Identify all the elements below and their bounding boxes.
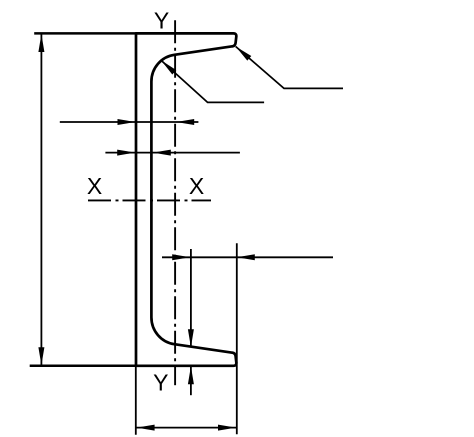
svg-text:Y: Y (154, 8, 169, 34)
svg-text:X: X (189, 173, 204, 199)
svg-text:Y: Y (153, 369, 168, 395)
svg-text:X: X (87, 173, 102, 199)
